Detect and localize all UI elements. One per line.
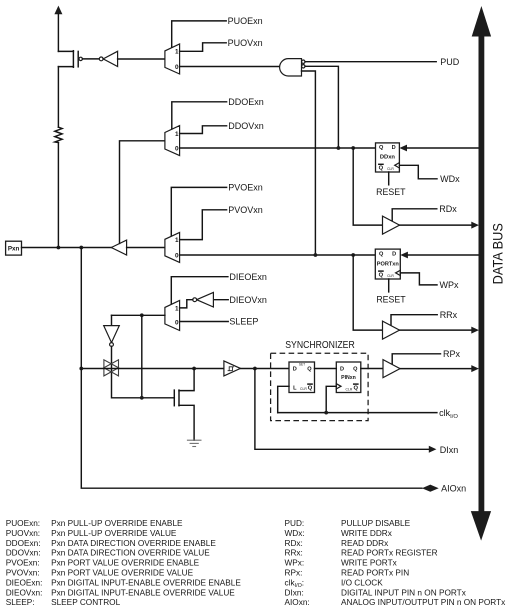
svg-text:RESET: RESET bbox=[376, 294, 406, 304]
svg-text:PVOExn:: PVOExn: bbox=[6, 559, 40, 568]
svg-text:RRx: RRx bbox=[440, 310, 458, 320]
svg-text:PUOExn:: PUOExn: bbox=[6, 519, 40, 528]
junction clamp drain bbox=[192, 367, 196, 371]
junction DIxn branch bbox=[253, 367, 257, 371]
svg-text:D: D bbox=[293, 366, 297, 372]
svg-text:CLR: CLR bbox=[346, 387, 353, 391]
wire PORTxn reset bbox=[388, 279, 390, 292]
gate G1 input bubble DDxn bbox=[302, 65, 305, 68]
svg-text:WDx:: WDx: bbox=[285, 529, 305, 538]
svg-text:DDOExn: DDOExn bbox=[228, 97, 264, 107]
node Pxn pin bbox=[6, 241, 22, 255]
svg-text:SLEEP CONTROL: SLEEP CONTROL bbox=[51, 598, 120, 607]
svg-text:WPx: WPx bbox=[440, 280, 459, 290]
wire DDxn Q to RDx buffer input bbox=[353, 148, 382, 225]
svg-text:READ DDRx: READ DDRx bbox=[341, 539, 389, 548]
svg-text:AIOxn: AIOxn bbox=[441, 483, 466, 493]
transistor Q1 pull-up PMOS bbox=[58, 51, 82, 128]
wire clk io horizontal bbox=[278, 412, 437, 414]
wire driver enable from DDOE mux bbox=[120, 141, 165, 244]
wire Pxn horizontal bbox=[22, 247, 112, 249]
svg-text:SLEEP: SLEEP bbox=[229, 317, 258, 327]
wire RRx enable bbox=[391, 315, 437, 326]
svg-text:CLR: CLR bbox=[387, 167, 394, 171]
svg-text:CLR: CLR bbox=[387, 274, 394, 278]
svg-text:DIEOVxn:: DIEOVxn: bbox=[6, 588, 43, 597]
svg-text:DIEOVxn: DIEOVxn bbox=[229, 295, 267, 305]
svg-text:PVOVxn:: PVOVxn: bbox=[6, 569, 40, 578]
wire pin to schmitt input bbox=[81, 368, 224, 370]
svg-text:Q: Q bbox=[354, 385, 359, 391]
wire SLEEP to mux input 0 bbox=[180, 321, 229, 323]
wire between latch and PINxn bbox=[315, 368, 337, 370]
svg-text:PUD: PUD bbox=[440, 57, 460, 67]
wire RPx buffer output to data bus bbox=[400, 365, 479, 372]
gate G1 input bubble PUD bbox=[302, 60, 305, 63]
svg-text:DIEOExn:: DIEOExn: bbox=[6, 578, 43, 587]
svg-text:Pxn PULL-UP OVERRIDE ENABLE: Pxn PULL-UP OVERRIDE ENABLE bbox=[51, 519, 183, 528]
mux M2 DDOE data direction override bbox=[165, 126, 180, 156]
wire DIxn output bbox=[255, 369, 437, 453]
svg-text:Q: Q bbox=[308, 385, 313, 391]
schmitt trigger U4 bbox=[224, 361, 241, 376]
transmission gate T1 bbox=[104, 360, 119, 376]
wire DDOVxn to mux input 1 bbox=[180, 126, 227, 134]
wire DIEOExn select bbox=[171, 277, 228, 304]
transistor Q2 clamp NMOS bbox=[174, 369, 194, 441]
svg-text:SYNCHRONIZER: SYNCHRONIZER bbox=[285, 340, 355, 351]
svg-text:PINxn: PINxn bbox=[341, 375, 356, 381]
svg-text:PVOExn: PVOExn bbox=[228, 183, 263, 193]
wire PORTxn Q to RRx buffer input bbox=[353, 255, 382, 330]
svg-text:DIxn: DIxn bbox=[440, 445, 459, 455]
wire DDxn D input with arrowhead from data bus bbox=[399, 145, 478, 152]
wire DDxn Q output line bbox=[180, 147, 376, 149]
junction PORTxn Q to AND bbox=[314, 253, 318, 257]
buffer RPx tri-state bbox=[383, 360, 400, 378]
inverter U3 input-disable (pointing down) bbox=[104, 315, 120, 346]
svg-text:SLEEP:: SLEEP: bbox=[6, 598, 35, 607]
svg-text:D: D bbox=[392, 251, 396, 257]
wire PMOS gate bbox=[82, 58, 99, 60]
svg-text:L: L bbox=[293, 385, 297, 391]
synchronizer dashed box bbox=[271, 353, 369, 420]
svg-text:1: 1 bbox=[175, 131, 179, 138]
wire RRx buffer output to data bus bbox=[400, 327, 479, 334]
svg-text:AIOxn:: AIOxn: bbox=[285, 598, 310, 607]
svg-text:RESET: RESET bbox=[376, 187, 406, 197]
svg-text:PUOVxn: PUOVxn bbox=[228, 38, 263, 48]
svg-text:Pxn: Pxn bbox=[8, 246, 20, 253]
data bus arrow bbox=[471, 6, 491, 541]
wire AND output to mux input 0 bbox=[180, 66, 280, 68]
svg-text:WRITE DDRx: WRITE DDRx bbox=[341, 529, 393, 538]
svg-text:Q: Q bbox=[379, 251, 384, 257]
svg-text:PORTxn: PORTxn bbox=[377, 262, 400, 268]
svg-text:PUD:: PUD: bbox=[285, 519, 305, 528]
wire PUD bbox=[305, 61, 436, 63]
svg-text:Pxn PULL-UP OVERRIDE VALUE: Pxn PULL-UP OVERRIDE VALUE bbox=[51, 529, 177, 538]
svg-text:DATA BUS: DATA BUS bbox=[489, 223, 505, 284]
svg-text:D: D bbox=[392, 145, 396, 151]
svg-text:1: 1 bbox=[175, 306, 179, 313]
svg-text:0: 0 bbox=[175, 252, 179, 259]
svg-text:RPx: RPx bbox=[443, 349, 461, 359]
wire DIEOE mux output bbox=[112, 314, 165, 316]
latch L1 sync first stage bbox=[289, 362, 315, 393]
svg-text:WRITE PORTx: WRITE PORTx bbox=[341, 559, 398, 568]
wire resistor to pin line bbox=[57, 143, 59, 248]
svg-text:DIEOExn: DIEOExn bbox=[229, 272, 267, 282]
gate G1 pull-up enable AND (mirrored) bbox=[280, 59, 302, 76]
mux M3 PVOE port value override bbox=[165, 232, 180, 262]
svg-text:Pxn PORT VALUE OVERRIDE VALUE: Pxn PORT VALUE OVERRIDE VALUE bbox=[51, 569, 193, 578]
svg-text:Pxn DATA DIRECTION OVERRIDE EN: Pxn DATA DIRECTION OVERRIDE ENABLE bbox=[51, 539, 216, 548]
svg-text:0: 0 bbox=[175, 64, 179, 71]
svg-text:RDx:: RDx: bbox=[285, 539, 303, 548]
power VCC arrow bbox=[54, 6, 62, 52]
svg-text:Q: Q bbox=[379, 145, 384, 151]
flip-flop DDxn bbox=[376, 143, 400, 172]
svg-text:PUOVxn:: PUOVxn: bbox=[6, 529, 40, 538]
ground bbox=[187, 440, 202, 446]
svg-text:DDOExn:: DDOExn: bbox=[6, 539, 41, 548]
svg-text:Pxn DIGITAL INPUT-ENABLE OVERR: Pxn DIGITAL INPUT-ENABLE OVERRIDE ENABLE bbox=[51, 578, 241, 587]
svg-text:PVOVxn: PVOVxn bbox=[228, 205, 263, 215]
svg-text:DIGITAL INPUT PIN n ON PORTx: DIGITAL INPUT PIN n ON PORTx bbox=[341, 588, 467, 597]
junction PORTxn Q to RRx buffer bbox=[351, 253, 355, 257]
wire inverter output to mux input 1 bbox=[180, 300, 193, 308]
flip-flop PINxn bbox=[336, 362, 361, 393]
svg-text:D: D bbox=[340, 366, 344, 372]
wire WDx clock bbox=[399, 165, 437, 179]
wire PUOExn select bbox=[172, 21, 227, 47]
wire inverter input from PUOE mux output bbox=[118, 58, 165, 60]
wire PVOExn select bbox=[171, 187, 226, 235]
wire PINxn Q to RPx buffer bbox=[361, 368, 383, 370]
flip-flop PORTxn bbox=[375, 249, 400, 279]
resistor R1 pull-up bbox=[55, 127, 62, 142]
wire PINxn clock from clk line bbox=[326, 386, 336, 412]
mux M1 PUOE pull-up override bbox=[165, 44, 180, 74]
svg-text:Q: Q bbox=[353, 366, 358, 372]
wire DDxn Q to AND input bbox=[305, 66, 338, 148]
wire PORTxn Q output line bbox=[180, 254, 376, 256]
wire RDx buffer output to data bus bbox=[400, 222, 479, 229]
svg-text:READ PORTx REGISTER: READ PORTx REGISTER bbox=[341, 549, 438, 558]
wire PVOVxn to mux input 1 bbox=[180, 210, 227, 240]
label legend left column bbox=[6, 519, 242, 607]
svg-text:WDx: WDx bbox=[440, 174, 460, 184]
svg-text:Q: Q bbox=[379, 272, 384, 278]
svg-text:0: 0 bbox=[175, 145, 179, 152]
svg-text:0: 0 bbox=[175, 320, 179, 327]
wire inverter output through transmission gate to clamp gate bbox=[112, 346, 175, 397]
svg-text:Pxn DATA DIRECTION OVERRIDE VA: Pxn DATA DIRECTION OVERRIDE VALUE bbox=[51, 549, 210, 558]
junction analog rail / schmitt line bbox=[79, 367, 83, 371]
buffer RDx tri-state bbox=[383, 216, 400, 234]
output driver buffer bbox=[111, 240, 126, 255]
wire schmitt output to synchronizer bbox=[240, 368, 289, 370]
junction DDxn Q to AND bbox=[337, 146, 341, 150]
svg-text:SET: SET bbox=[299, 363, 305, 367]
svg-text:Q: Q bbox=[307, 366, 312, 372]
svg-text:READ PORTx PIN: READ PORTx PIN bbox=[341, 569, 409, 578]
junction DDxn Q to RDx buffer bbox=[351, 146, 355, 150]
svg-text:RPx:: RPx: bbox=[285, 569, 303, 578]
junction clk branch bbox=[324, 411, 328, 415]
wire driver input from PVOE mux bbox=[127, 247, 165, 249]
wire latch enable to clk line bbox=[278, 386, 289, 412]
svg-text:RRx:: RRx: bbox=[285, 549, 303, 558]
svg-text:DDOVxn:: DDOVxn: bbox=[6, 549, 41, 558]
inverter U2 DIEOV bbox=[193, 292, 214, 307]
wire PUOVxn to mux input 1 bbox=[180, 43, 227, 52]
junction pin / analog branch bbox=[79, 246, 83, 250]
svg-text:ANALOG INPUT/OUTPUT PIN n ON P: ANALOG INPUT/OUTPUT PIN n ON PORTx bbox=[341, 598, 506, 607]
wire RDx enable bbox=[392, 209, 437, 221]
svg-text:Q: Q bbox=[379, 166, 384, 172]
wire DDxn reset bbox=[388, 172, 390, 185]
svg-text:Pxn PORT VALUE OVERRIDE ENABLE: Pxn PORT VALUE OVERRIDE ENABLE bbox=[51, 559, 200, 568]
svg-text:DDxn: DDxn bbox=[380, 155, 396, 161]
junction DIEOE branch bbox=[140, 313, 144, 317]
buffer RRx tri-state bbox=[383, 321, 400, 339]
svg-text:RDx: RDx bbox=[439, 204, 457, 214]
svg-text:CLR: CLR bbox=[300, 387, 307, 391]
wire PORTxn D input with arrowhead from data bus bbox=[400, 252, 478, 259]
junction pull-up / pin bbox=[57, 246, 61, 250]
wire DIEOE direct to clamp gate bbox=[141, 315, 143, 398]
svg-text:1: 1 bbox=[175, 237, 179, 244]
svg-text:DIxn:: DIxn: bbox=[285, 588, 304, 597]
wire PORTxn Q to AND input bbox=[302, 71, 316, 255]
svg-text:I/O CLOCK: I/O CLOCK bbox=[341, 578, 383, 587]
svg-text:DDOVxn: DDOVxn bbox=[228, 121, 264, 131]
svg-text:WPx:: WPx: bbox=[285, 559, 305, 568]
wire WPx clock bbox=[400, 273, 437, 285]
svg-text:PULLUP DISABLE: PULLUP DISABLE bbox=[341, 519, 411, 528]
inverter U1 pull-up gate driver bbox=[99, 51, 117, 66]
wire AIOxn analog rail bbox=[81, 248, 438, 492]
mux M4 DIEOE digital input enable override bbox=[165, 301, 180, 331]
svg-text:PUOExn: PUOExn bbox=[228, 16, 263, 26]
label legend right column bbox=[285, 519, 507, 607]
junction clamp gate bbox=[140, 396, 144, 400]
wire DDOExn select bbox=[172, 102, 227, 129]
wire DIEOVxn into inverter bbox=[213, 299, 228, 301]
svg-text:Pxn DIGITAL INPUT-ENABLE OVERR: Pxn DIGITAL INPUT-ENABLE OVERRIDE VALUE bbox=[51, 588, 235, 597]
wire RPx enable bbox=[392, 354, 440, 365]
svg-text:1: 1 bbox=[175, 49, 179, 56]
